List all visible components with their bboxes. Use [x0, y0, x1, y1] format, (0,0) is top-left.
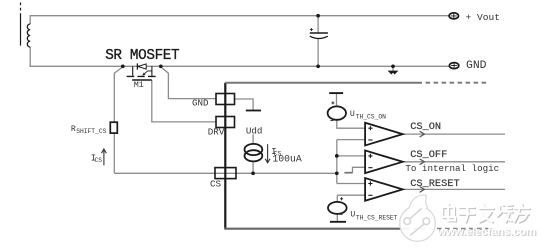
svg-text:U: U	[350, 210, 355, 219]
svg-text:CS: CS	[95, 157, 103, 164]
svg-text:Udd: Udd	[246, 125, 263, 136]
svg-text:CS: CS	[210, 178, 222, 189]
svg-text:CS_RESET: CS_RESET	[410, 178, 459, 190]
svg-text:CS_ON: CS_ON	[410, 121, 441, 133]
svg-text:CS: CS	[274, 151, 282, 158]
svg-text:TH_CS_ON: TH_CS_ON	[356, 114, 386, 121]
svg-text:GND: GND	[466, 60, 487, 72]
svg-text:CS_OFF: CS_OFF	[410, 149, 447, 161]
svg-text:www.elecfans.com: www.elecfans.com	[436, 226, 535, 238]
svg-text:U: U	[350, 110, 355, 119]
svg-text:M1: M1	[134, 80, 144, 90]
svg-text:TH_CS_RESET: TH_CS_RESET	[356, 215, 398, 222]
svg-text:To internal logic: To internal logic	[405, 163, 499, 174]
svg-text:SHIFT_CS: SHIFT_CS	[76, 128, 106, 135]
svg-text:DRV: DRV	[208, 127, 225, 138]
svg-text:R: R	[71, 125, 76, 134]
svg-text:GND: GND	[192, 98, 209, 109]
svg-text:+ Vout: + Vout	[466, 12, 501, 23]
svg-text:SR MOSFET: SR MOSFET	[105, 48, 180, 64]
